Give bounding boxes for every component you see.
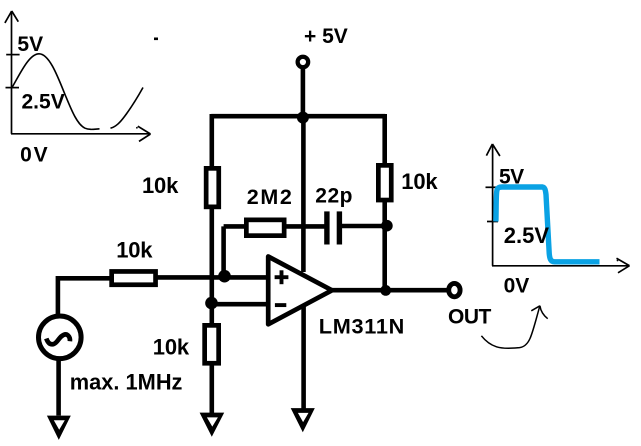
svg-text:0V: 0V [20, 143, 49, 166]
svg-text:LM311N: LM311N [319, 314, 405, 339]
svg-text:OUT: OUT [448, 306, 492, 329]
svg-text:5V: 5V [499, 166, 524, 189]
svg-text:10k: 10k [401, 169, 438, 194]
svg-text:0V: 0V [504, 274, 530, 297]
svg-text:2M2: 2M2 [247, 185, 294, 209]
svg-text:+ 5V: + 5V [304, 25, 348, 48]
svg-text:2.5V: 2.5V [504, 223, 550, 248]
svg-text:10k: 10k [142, 173, 179, 198]
svg-text:22p: 22p [315, 184, 353, 207]
svg-text:5V: 5V [17, 33, 43, 56]
svg-text:10k: 10k [153, 335, 190, 360]
svg-text:max. 1MHz: max. 1MHz [70, 370, 183, 395]
svg-text:2.5V: 2.5V [22, 90, 65, 113]
svg-text:10k: 10k [116, 237, 153, 262]
